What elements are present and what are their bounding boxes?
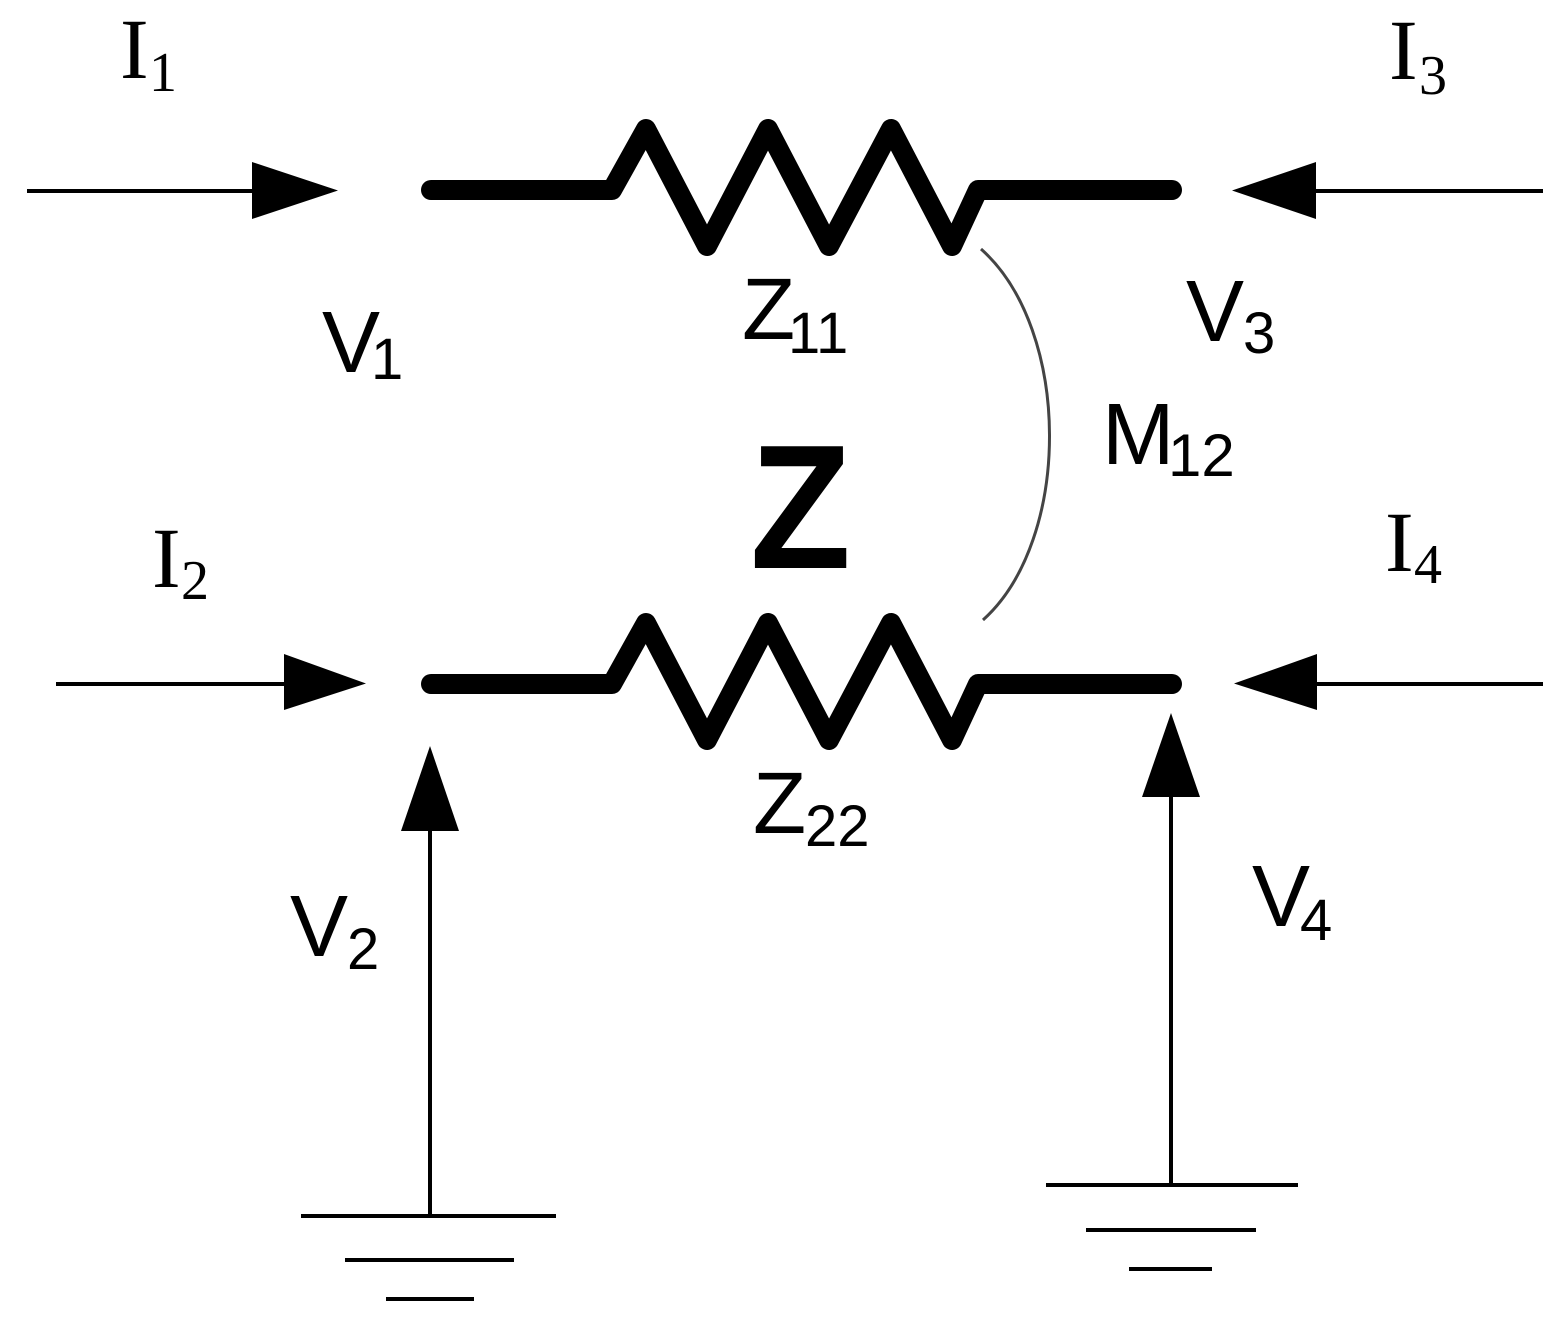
svg-text:22: 22 [805,794,870,859]
svg-text:11: 11 [788,301,848,366]
svg-text:3: 3 [1243,301,1275,366]
svg-text:1: 1 [371,327,403,392]
svg-text:4: 4 [1300,888,1332,953]
svg-text:M: M [1102,386,1174,483]
svg-text:I: I [1385,494,1414,590]
svg-text:2: 2 [347,917,379,982]
svg-text:3: 3 [1419,45,1447,107]
svg-text:2: 2 [181,550,209,612]
svg-text:Z: Z [753,755,806,852]
svg-text:4: 4 [1414,534,1442,596]
svg-text:V: V [290,878,348,975]
svg-text:V: V [1186,263,1244,360]
svg-text:1: 1 [149,42,177,104]
svg-text:12: 12 [1168,422,1235,489]
svg-text:I: I [152,510,181,606]
svg-text:Z: Z [750,408,851,606]
svg-text:I: I [120,1,149,97]
svg-text:I: I [1389,2,1418,98]
